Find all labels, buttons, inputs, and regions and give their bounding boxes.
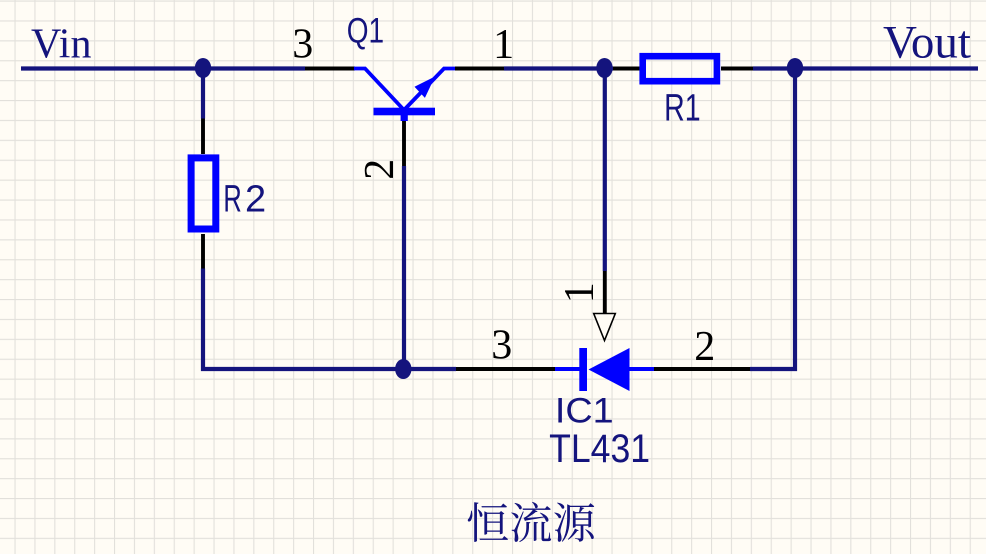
pin IC1 pin3 cathode lead (456, 367, 555, 371)
svg-text:3: 3 (292, 22, 313, 68)
svg-text:IC1: IC1 (555, 391, 614, 430)
wire Vin top (21, 66, 305, 70)
wire Vout node down to TL431 anode (750, 69, 795, 370)
wire Q1 emitter to node (504, 66, 613, 70)
IC1 cathode stub (555, 367, 580, 371)
svg-text:2: 2 (245, 179, 266, 221)
wire R1 to Vout (753, 66, 978, 70)
IC1 reference arrow (pin 1) (594, 314, 616, 341)
diode IC1 TL431 (555, 314, 654, 392)
pin Q1 pin1 (455, 67, 504, 71)
pin R1 pin1 (613, 67, 640, 71)
node A junction (195, 58, 211, 78)
node B junction (596, 58, 612, 78)
svg-text:R: R (223, 178, 241, 220)
title char 源 (554, 503, 594, 542)
svg-text:2: 2 (694, 324, 715, 370)
node Vout junction (787, 58, 803, 78)
wire Q1 base down (402, 166, 406, 369)
title 恒流源 (drawn as paths) (468, 502, 594, 542)
wire R2 to bottom rail (203, 269, 456, 370)
svg-text:1: 1 (557, 282, 603, 303)
Q1 base stub to pin 2 (401, 114, 408, 121)
svg-text:Q1: Q1 (347, 10, 384, 50)
resistor R1 body (643, 56, 717, 81)
title char 流 (511, 502, 551, 542)
Q1 collector line (pin 3 side) (354, 69, 404, 111)
svg-text:Vin: Vin (31, 22, 91, 68)
pin R2 pin1 (201, 119, 205, 155)
IC1 cathode bar (579, 348, 587, 391)
node bottom junction (395, 359, 411, 379)
svg-text:1: 1 (493, 22, 514, 68)
title char 恒 (468, 502, 508, 542)
IC1 anode stub (630, 367, 655, 371)
pin IC1 pin1 ref lead (603, 271, 607, 314)
transistor Q1 (354, 69, 455, 122)
pin Q1 pin2 (402, 115, 406, 166)
pin IC1 pin2 anode lead (654, 367, 750, 371)
svg-text:3: 3 (491, 322, 512, 368)
svg-text:R1: R1 (664, 88, 700, 130)
pin R2 pin2 (201, 234, 205, 269)
Q1 emitter line (pin 1 side) (404, 69, 455, 111)
svg-text:TL431: TL431 (549, 427, 650, 471)
svg-text:Vout: Vout (883, 17, 971, 69)
pin Q1 pin3 (305, 67, 355, 71)
wire node B to TL431 ref (603, 69, 607, 272)
wire node A to R2 (201, 69, 205, 119)
Q1 base bar (374, 108, 436, 116)
resistor R2 body (191, 158, 216, 229)
Q1 emitter arrow (415, 77, 436, 98)
svg-text:2: 2 (357, 159, 403, 180)
pin R1 pin2 (721, 67, 753, 71)
IC1 diode triangle (589, 348, 630, 391)
